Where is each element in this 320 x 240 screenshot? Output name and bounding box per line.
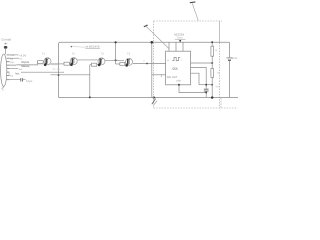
pin 7 tick	[7, 75, 10, 77]
wire into R4	[116, 63, 120, 65]
wire plug to body	[5, 49, 7, 55]
label underline	[85, 48, 100, 50]
leader dot	[71, 46, 73, 48]
svg-text:Masse: Masse	[21, 64, 30, 68]
IC waveform glyph	[172, 57, 180, 60]
wire pin6 long	[21, 71, 64, 73]
transistor Q4	[125, 63, 128, 65]
svg-text:Conrad: Conrad	[1, 37, 11, 41]
annotation tick B	[190, 1, 196, 4]
wire Q2 out corner down	[89, 65, 91, 98]
dashed module box	[154, 21, 238, 108]
wire R5 top	[211, 42, 213, 46]
resistor R2	[64, 62, 69, 65]
power rail +V	[59, 42, 230, 97]
wire Q1 out	[51, 63, 64, 65]
junction rail pin	[179, 40, 181, 42]
svg-text:r: r	[182, 59, 183, 62]
wire pin8	[9, 79, 20, 81]
wire C2 bottom	[205, 91, 207, 97]
node dot on signal	[146, 63, 148, 65]
pin 4 tick	[7, 64, 10, 66]
transistor Q1	[44, 58, 51, 66]
junction node pullup	[115, 59, 117, 61]
pin 3 tick	[7, 61, 10, 63]
junction IC bottom pin	[178, 84, 180, 86]
IC right pin 3 wire	[191, 62, 213, 64]
connector J1 cable pigtail	[2, 86, 5, 89]
svg-text:imp: imp	[10, 61, 15, 64]
pin 2 tick	[7, 57, 10, 59]
label underline right	[175, 38, 185, 40]
wire probe stub	[219, 21, 221, 42]
wire R5 bottom	[211, 56, 213, 68]
resistor R5	[211, 46, 214, 56]
resistor R4	[120, 63, 125, 66]
battery gap mask	[229, 57, 231, 61]
wire bias bottom	[51, 74, 90, 76]
junction R6 ground	[211, 96, 213, 98]
wire into R3	[90, 64, 92, 66]
wire pin2	[9, 57, 19, 59]
IC right pin wire discharge	[191, 73, 199, 85]
svg-text:10k 10k: 10k 10k	[52, 68, 61, 71]
IC bottom pin wire	[179, 85, 206, 93]
svg-text:0,1µF: 0,1µF	[26, 80, 33, 83]
annotation arrow B	[192, 3, 198, 20]
resistor R6	[211, 69, 214, 78]
IC U1 body	[166, 51, 191, 85]
wire pin1	[9, 54, 18, 56]
wire pin5	[9, 68, 18, 70]
wire Q4 out to IC	[133, 63, 166, 65]
ground rail	[59, 96, 239, 98]
wire trigger to IC	[152, 74, 166, 76]
svg-text:4x BC547B: 4x BC547B	[85, 45, 99, 49]
IC top pin stubs	[169, 42, 183, 51]
pin 6 tick	[7, 71, 10, 73]
capacitor C1	[21, 78, 23, 81]
wire C1 right	[23, 79, 26, 81]
svg-text:Takt: Takt	[15, 73, 20, 76]
wire Q3 out	[105, 59, 124, 61]
resistor R1	[38, 61, 44, 64]
junction node row right	[211, 84, 213, 86]
wire pullup to rail	[115, 42, 117, 64]
svg-text:DIS OUT: DIS OUT	[167, 76, 178, 79]
junction node row left	[205, 84, 207, 86]
capacitor C2	[204, 89, 209, 91]
pin 1 tick	[7, 54, 10, 56]
junction bias	[58, 74, 60, 76]
connector J1 plug blob	[4, 46, 7, 49]
wire vertical feed	[151, 42, 153, 97]
transistor Q3	[97, 64, 100, 66]
wire node row	[199, 84, 212, 86]
svg-text:4,5V: 4,5V	[232, 57, 238, 60]
wire R1 to Q1	[43, 61, 44, 63]
battery B1 plates	[227, 57, 233, 59]
junction Q2 ground	[89, 96, 91, 98]
annotation arrow A	[146, 26, 169, 48]
wire R6 bottom to ground	[211, 77, 213, 97]
wire pin3 to R1	[9, 62, 37, 65]
junction ground feed	[153, 96, 155, 98]
IC right pin wire threshold	[191, 68, 207, 90]
svg-text:555: 555	[172, 67, 178, 71]
resistor R3	[91, 63, 96, 66]
connector J1 shield symbol	[4, 43, 7, 45]
annotation tick A	[144, 25, 148, 27]
ground squiggle	[152, 99, 156, 105]
junction rail feed	[151, 41, 154, 44]
pin 5 tick	[7, 68, 10, 70]
label 4x BC547 leader	[73, 46, 85, 49]
transistor Q2	[69, 63, 72, 65]
junction R5 rail	[211, 41, 213, 43]
pin 8 tick	[7, 79, 10, 81]
faint second line	[38, 64, 58, 66]
junction rail pullup	[115, 41, 117, 43]
junction pin3 node	[211, 62, 213, 64]
connector J1 body	[1, 54, 7, 86]
svg-text:GND: GND	[176, 80, 181, 83]
junction C2 wire	[205, 92, 207, 94]
wire Q2 collector out	[77, 59, 98, 61]
